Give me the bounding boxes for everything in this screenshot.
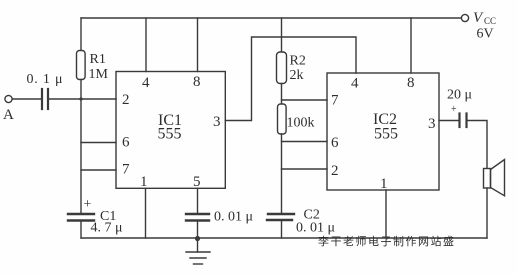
wire Vcc top rail bbox=[81, 17, 461, 19]
pin 8 lead IC2 bbox=[410, 18, 412, 73]
wire pin6 IC2 bbox=[282, 141, 328, 143]
junction ground bbox=[195, 236, 200, 241]
wire pin2 IC2 bbox=[282, 168, 328, 170]
svg-text:R1: R1 bbox=[90, 52, 106, 67]
svg-text:0. 01 μ: 0. 01 μ bbox=[296, 221, 335, 236]
capacitor C1 4.7u electrolytic bbox=[68, 214, 94, 221]
pin 8 lead IC1 bbox=[197, 18, 199, 72]
svg-text:100k: 100k bbox=[287, 116, 315, 131]
svg-text:7: 7 bbox=[331, 93, 339, 109]
svg-text:8: 8 bbox=[193, 74, 201, 90]
wire C1 to ground rail bbox=[80, 221, 82, 239]
label IC1 555 bbox=[158, 112, 183, 143]
wire C2 to rail bbox=[281, 220, 283, 238]
wire cap to rail bbox=[197, 221, 199, 239]
svg-text:1: 1 bbox=[140, 174, 148, 190]
svg-text:6: 6 bbox=[122, 135, 130, 151]
junction input/R1 bbox=[79, 97, 82, 100]
resistor R2 bbox=[281, 18, 283, 52]
pin 1 lead IC1 bbox=[145, 188, 147, 238]
label Vcc 6V bbox=[473, 10, 496, 42]
svg-text:2k: 2k bbox=[290, 68, 304, 83]
wire R1 to C1 bbox=[80, 80, 82, 215]
svg-text:5: 5 bbox=[193, 174, 201, 190]
svg-text:CC: CC bbox=[484, 16, 496, 26]
wire speaker to rail bbox=[486, 188, 488, 238]
svg-text:0. 1 μ: 0. 1 μ bbox=[27, 72, 64, 87]
svg-text:0. 01 μ: 0. 01 μ bbox=[214, 210, 253, 225]
ground bbox=[186, 238, 210, 264]
wire pin7 IC1 bbox=[81, 169, 116, 171]
pin 1 lead IC2 bbox=[385, 190, 387, 238]
svg-text:李干老师电子制作网站盛: 李干老师电子制作网站盛 bbox=[318, 234, 456, 248]
watermark bbox=[318, 234, 456, 248]
speaker LS bbox=[484, 160, 505, 196]
op-amp U2 IC2 555 box bbox=[327, 73, 439, 190]
resistor 100k bbox=[278, 104, 287, 134]
svg-text:2: 2 bbox=[331, 163, 339, 179]
svg-text:8: 8 bbox=[407, 75, 415, 91]
svg-text:+: + bbox=[84, 197, 92, 212]
wire bottom ground rail bbox=[81, 237, 487, 239]
capacitor 20u output bbox=[460, 114, 467, 128]
wire pin6 IC1 bbox=[81, 142, 116, 144]
svg-text:6: 6 bbox=[331, 135, 339, 151]
svg-text:7: 7 bbox=[122, 162, 130, 178]
label R2 2k bbox=[290, 54, 306, 84]
pin 4 lead IC1 bbox=[145, 18, 147, 72]
resistor R1 bbox=[80, 18, 82, 51]
wire IC2 pin3 to 20u bbox=[439, 120, 459, 122]
svg-text:20 μ: 20 μ bbox=[447, 88, 472, 103]
label R1 1M bbox=[89, 52, 109, 82]
terminal A input bbox=[5, 95, 12, 102]
svg-text:A: A bbox=[3, 107, 14, 123]
capacitor C2 0.01u bbox=[267, 214, 294, 220]
svg-text:555: 555 bbox=[158, 126, 182, 143]
wire C to pin2 bbox=[48, 98, 116, 100]
svg-text:R2: R2 bbox=[290, 54, 306, 69]
wire 20u to speaker bbox=[467, 121, 488, 169]
label IC2 555 bbox=[373, 111, 398, 143]
wire R2 to 100k bbox=[281, 84, 283, 105]
svg-text:+: + bbox=[451, 104, 457, 115]
wire pin7 IC2 bbox=[282, 99, 328, 101]
svg-text:4: 4 bbox=[351, 76, 359, 92]
svg-text:4: 4 bbox=[142, 75, 150, 91]
svg-text:3: 3 bbox=[428, 116, 436, 132]
svg-text:3: 3 bbox=[213, 114, 221, 130]
svg-text:4. 7 μ: 4. 7 μ bbox=[91, 221, 123, 236]
terminal Vcc bbox=[461, 14, 468, 21]
svg-text:555: 555 bbox=[374, 126, 398, 143]
svg-text:6V: 6V bbox=[477, 27, 494, 42]
capacitor 0.01u pin5 bbox=[186, 214, 209, 221]
svg-text:1M: 1M bbox=[89, 67, 109, 82]
wire 100k down to C2 bbox=[281, 134, 283, 214]
pin 5 lead IC1 bbox=[197, 188, 199, 214]
svg-text:2: 2 bbox=[122, 92, 130, 108]
capacitor 0.1u input bbox=[42, 89, 48, 109]
svg-text:1: 1 bbox=[380, 176, 388, 192]
svg-text:V: V bbox=[473, 10, 484, 26]
op-amp U1 IC1 555 box bbox=[116, 72, 225, 189]
wire IC1 pin3 to IC2 pin4 bbox=[225, 37, 356, 121]
wire input to C bbox=[12, 98, 41, 100]
